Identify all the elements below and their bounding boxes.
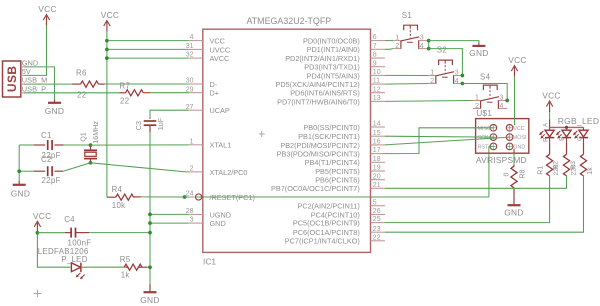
wire MOSI bbox=[385, 137, 510, 145]
svg-text:GND: GND bbox=[11, 189, 31, 199]
resistor R4 bbox=[107, 185, 141, 210]
svg-text:AVCC: AVCC bbox=[210, 54, 230, 63]
wire pin13 to S4 bbox=[385, 100, 473, 103]
wire S1 to S2 bbox=[429, 49, 463, 76]
svg-text:VCC: VCC bbox=[508, 55, 527, 65]
resistor R3 bbox=[580, 144, 593, 176]
wire reset riser to RST bbox=[488, 146, 490, 197]
svg-text:R6: R6 bbox=[76, 69, 87, 78]
svg-text:R3: R3 bbox=[570, 161, 577, 170]
label LEDFAB1206 bbox=[38, 247, 89, 256]
wire pin6 to S1 bbox=[385, 40, 393, 42]
svg-text:16MHz: 16MHz bbox=[91, 121, 100, 144]
svg-text:4: 4 bbox=[500, 103, 504, 110]
resistor R6 bbox=[72, 69, 105, 100]
connector U$1 AVRISPSMD bbox=[476, 119, 529, 165]
svg-text:GND: GND bbox=[210, 219, 226, 228]
svg-text:VCC: VCC bbox=[210, 37, 225, 46]
wire pin10 to S2 bbox=[385, 74, 428, 76]
svg-text:10: 10 bbox=[373, 69, 381, 76]
svg-text:UVCC: UVCC bbox=[210, 45, 231, 54]
wire R5 to GND rail bbox=[147, 266, 150, 268]
svg-text:R7: R7 bbox=[120, 81, 131, 90]
switch S1 bbox=[393, 11, 428, 50]
svg-text:RST: RST bbox=[478, 144, 489, 150]
svg-text:VCC: VCC bbox=[101, 10, 120, 20]
junction C4 gnd bbox=[148, 231, 152, 235]
svg-text:VCC: VCC bbox=[542, 91, 561, 101]
svg-text:24: 24 bbox=[186, 191, 194, 198]
wire VCC to C4/LED bbox=[37, 232, 70, 268]
junction UGND bbox=[148, 213, 152, 217]
wire XTAL2 sloped bbox=[91, 163, 189, 172]
svg-text:P_LED: P_LED bbox=[61, 255, 88, 264]
junction S2b bbox=[461, 82, 465, 86]
wire VCC to pin 31 bbox=[107, 48, 189, 50]
svg-text:S2: S2 bbox=[437, 46, 447, 55]
LED P_LED bbox=[61, 255, 88, 279]
wire VCC to pin 32 bbox=[107, 57, 189, 59]
svg-text:GND: GND bbox=[45, 106, 65, 116]
wire SCK bbox=[385, 135, 493, 138]
power symbol VCC (bottom) bbox=[33, 211, 52, 233]
junction VCC pin32 bbox=[105, 56, 109, 60]
svg-text:C3: C3 bbox=[134, 121, 143, 130]
svg-text:PC2(AIN2/PCIN11): PC2(AIN2/PCIN11) bbox=[297, 202, 359, 211]
svg-text:25: 25 bbox=[373, 216, 381, 223]
svg-text:R8: R8 bbox=[519, 169, 526, 178]
wire VCC to RGB anode bbox=[549, 112, 551, 120]
wire C2 to XTAL2 node bbox=[63, 163, 90, 171]
wire C1 to XTAL1 node bbox=[64, 144, 91, 146]
junction VCC pin31 bbox=[105, 48, 109, 52]
wire UCAP bbox=[150, 110, 189, 118]
capacitor C1 bbox=[19, 131, 63, 160]
svg-text:/RESET(PC1): /RESET(PC1) bbox=[210, 193, 255, 202]
wire R7 to pin 29 (D+) bbox=[150, 92, 189, 94]
svg-text:IC1: IC1 bbox=[203, 257, 216, 267]
svg-text:13: 13 bbox=[373, 95, 381, 102]
svg-text:USB_P: USB_P bbox=[22, 85, 46, 94]
wire VCC rail vertical bbox=[106, 32, 108, 198]
wire 5V to VCC bbox=[25, 26, 47, 76]
svg-text:S4: S4 bbox=[480, 72, 491, 81]
svg-text:22pF: 22pF bbox=[42, 176, 61, 185]
svg-text:4: 4 bbox=[455, 78, 459, 85]
power symbol VCC (ISP) bbox=[508, 55, 527, 77]
ground GND (USB) bbox=[45, 100, 65, 117]
svg-text:3: 3 bbox=[420, 35, 424, 42]
wire R3 to pin23 bbox=[385, 176, 584, 232]
resistor R7 bbox=[120, 81, 151, 105]
svg-text:R5: R5 bbox=[120, 255, 131, 264]
svg-text:C4: C4 bbox=[64, 215, 75, 224]
wire R1 to pin25 bbox=[385, 176, 550, 223]
svg-text:1uF: 1uF bbox=[156, 117, 165, 130]
svg-text:ATMEGA32U2-TQFP: ATMEGA32U2-TQFP bbox=[247, 16, 332, 26]
svg-text:Q1: Q1 bbox=[79, 132, 88, 142]
svg-text:GND: GND bbox=[140, 295, 160, 305]
junction S4a bbox=[505, 99, 509, 103]
LED B bbox=[556, 127, 571, 143]
svg-text:XTAL1: XTAL1 bbox=[210, 141, 232, 150]
wire RST bbox=[489, 145, 494, 147]
svg-text:14: 14 bbox=[373, 121, 381, 128]
svg-text:MISO: MISO bbox=[478, 126, 492, 132]
svg-text:UCAP: UCAP bbox=[210, 106, 230, 115]
wire R6 to pin 30 (D-) bbox=[105, 83, 189, 85]
svg-text:MOSI: MOSI bbox=[513, 135, 527, 141]
svg-text:USB: USB bbox=[5, 66, 19, 93]
svg-text:28: 28 bbox=[186, 208, 194, 215]
svg-text:6: 6 bbox=[373, 34, 377, 41]
svg-text:PD6(INT6/AIN5/RTS): PD6(INT6/AIN5/RTS) bbox=[290, 89, 360, 98]
svg-text:G: G bbox=[577, 136, 584, 141]
wire C1/C2 ground leg bbox=[18, 145, 20, 182]
svg-text:2: 2 bbox=[430, 78, 434, 85]
junction VCC pin4 bbox=[105, 39, 109, 43]
svg-text:26: 26 bbox=[373, 208, 381, 215]
label RGB_LED bbox=[558, 116, 599, 126]
wire pin7 to S1 bbox=[385, 48, 393, 51]
svg-text:PC7(ICP1/INT4/CLKO): PC7(ICP1/INT4/CLKO) bbox=[285, 237, 360, 246]
svg-text:PD1(INT1/AIN0): PD1(INT1/AIN0) bbox=[307, 45, 360, 54]
svg-text:PB0(SS/PCINT0): PB0(SS/PCINT0) bbox=[303, 123, 359, 132]
capacitor C4 bbox=[64, 215, 91, 248]
svg-text:PB4(T1/PCINT4): PB4(T1/PCINT4) bbox=[305, 158, 360, 167]
svg-text:9: 9 bbox=[373, 60, 377, 67]
svg-text:5: 5 bbox=[373, 199, 377, 206]
svg-text:10k: 10k bbox=[112, 201, 126, 210]
svg-text:2: 2 bbox=[190, 166, 194, 173]
svg-text:PC5(OC1B/PCINT9): PC5(OC1B/PCINT9) bbox=[293, 219, 360, 228]
RGB anode bus bbox=[543, 120, 584, 130]
svg-text:S1: S1 bbox=[402, 11, 412, 20]
resistor R2 bbox=[563, 144, 577, 176]
svg-text:GND: GND bbox=[469, 48, 489, 58]
svg-text:PD0(INT0/OC0B): PD0(INT0/OC0B) bbox=[303, 37, 360, 46]
svg-text:1: 1 bbox=[475, 95, 479, 102]
svg-text:UGND: UGND bbox=[210, 210, 232, 219]
junction S1b bbox=[427, 47, 431, 51]
svg-text:22: 22 bbox=[120, 96, 129, 105]
svg-text:4: 4 bbox=[190, 34, 194, 41]
junction R5 gnd bbox=[148, 265, 152, 269]
wire XTAL1 bbox=[91, 144, 189, 146]
wire S2 to S4 bbox=[462, 84, 507, 101]
svg-text:32: 32 bbox=[186, 52, 194, 59]
resistor R8 bbox=[504, 165, 527, 205]
switch S4 bbox=[473, 72, 508, 110]
svg-text:PB3(PDO/MISO/PCINT3): PB3(PDO/MISO/PCINT3) bbox=[277, 150, 360, 159]
svg-text:27: 27 bbox=[186, 104, 194, 111]
svg-text:8: 8 bbox=[373, 52, 377, 59]
junction S2a bbox=[461, 74, 465, 78]
svg-text:D-: D- bbox=[210, 80, 218, 89]
svg-text:22: 22 bbox=[373, 234, 381, 241]
svg-text:22: 22 bbox=[77, 91, 86, 100]
svg-text:XTAL2/PC0: XTAL2/PC0 bbox=[210, 168, 248, 177]
svg-text:1k: 1k bbox=[121, 271, 130, 280]
svg-text:B: B bbox=[559, 137, 566, 141]
power symbol VCC (RGB) bbox=[542, 91, 561, 113]
svg-text:23: 23 bbox=[373, 226, 381, 233]
svg-text:0: 0 bbox=[504, 173, 511, 177]
svg-text:C1: C1 bbox=[41, 131, 52, 140]
svg-text:7: 7 bbox=[373, 43, 377, 50]
svg-text:C2: C2 bbox=[41, 155, 52, 164]
wire GND rail vertical bbox=[149, 132, 151, 285]
junction S1a bbox=[427, 39, 431, 43]
svg-text:PD4(INT5/AIN3): PD4(INT5/AIN3) bbox=[307, 71, 360, 80]
wire VCC to U$1 bbox=[514, 77, 516, 126]
wire C4 to GND rail bbox=[89, 232, 150, 234]
svg-text:VCC: VCC bbox=[38, 4, 57, 14]
resistor R5 bbox=[120, 255, 148, 280]
crystal Q1 bbox=[79, 121, 100, 165]
wire S1 to GND bbox=[429, 41, 479, 44]
svg-text:AVRISPSMD: AVRISPSMD bbox=[476, 155, 527, 165]
svg-text:VCC: VCC bbox=[513, 126, 524, 132]
svg-text:18: 18 bbox=[373, 156, 381, 163]
svg-text:19: 19 bbox=[373, 165, 381, 172]
svg-text:1: 1 bbox=[395, 35, 399, 42]
LED G bbox=[573, 127, 588, 143]
svg-text:16: 16 bbox=[373, 139, 381, 146]
wire USB GND bbox=[25, 67, 55, 100]
svg-text:4: 4 bbox=[420, 43, 424, 50]
svg-text:1: 1 bbox=[430, 70, 434, 77]
svg-text:U$1: U$1 bbox=[476, 108, 492, 118]
junction GND pin3 bbox=[148, 221, 152, 225]
svg-text:RGB_LED: RGB_LED bbox=[558, 116, 599, 126]
wire UGND pin 28 bbox=[150, 213, 189, 215]
svg-text:5V: 5V bbox=[22, 67, 31, 76]
svg-text:PD2(INT2/AIN1/RXD1): PD2(INT2/AIN1/RXD1) bbox=[285, 54, 360, 63]
ground GND (S1) bbox=[469, 44, 489, 58]
svg-text:2: 2 bbox=[395, 43, 399, 50]
svg-text:PD7(INT7/HWB/AIN6/T0): PD7(INT7/HWB/AIN6/T0) bbox=[277, 97, 360, 106]
op IC1 ATMEGA32U2-TQFP bbox=[186, 16, 385, 267]
wire reset net across IC bbox=[185, 196, 489, 198]
ground GND (crystal) bbox=[11, 181, 31, 199]
ground GND (main rail) bbox=[140, 284, 160, 305]
svg-text:12: 12 bbox=[373, 86, 381, 93]
capacitor C3 bbox=[134, 117, 165, 132]
wire GND pin 3 bbox=[150, 222, 189, 224]
svg-text:17: 17 bbox=[373, 147, 381, 154]
svg-text:R2: R2 bbox=[553, 161, 560, 170]
capacitor C2 bbox=[19, 155, 63, 185]
power symbol VCC (USB) bbox=[38, 4, 57, 26]
svg-text:D+: D+ bbox=[210, 89, 220, 98]
svg-text:29: 29 bbox=[186, 86, 194, 93]
wire MISO bbox=[385, 128, 493, 154]
wire USB_M to R6 bbox=[25, 83, 73, 85]
wire pin11 to S2 bbox=[385, 83, 428, 86]
svg-text:1: 1 bbox=[190, 138, 194, 145]
svg-text:PD3(INT3/TXD1): PD3(INT3/TXD1) bbox=[304, 63, 360, 72]
origin cross bbox=[34, 290, 41, 297]
svg-text:PB7(OC0A/OC1C/PCINT7): PB7(OC0A/OC1C/PCINT7) bbox=[271, 184, 360, 193]
wire C4 left bbox=[37, 232, 64, 234]
wire R2 to pin21 bbox=[385, 176, 567, 188]
svg-text:30: 30 bbox=[186, 78, 194, 85]
svg-text:PB1(SCK/PCINT1): PB1(SCK/PCINT1) bbox=[298, 132, 360, 141]
svg-text:R1: R1 bbox=[538, 166, 545, 175]
svg-text:R4: R4 bbox=[112, 185, 123, 194]
wire LED to R5 bbox=[81, 266, 126, 268]
svg-text:1k: 1k bbox=[587, 167, 594, 175]
svg-text:VCC: VCC bbox=[33, 211, 52, 221]
wire VCC to pin 4 bbox=[107, 40, 189, 42]
USB connector X1 bbox=[3, 59, 48, 98]
svg-text:USB_M: USB_M bbox=[22, 76, 47, 85]
resistor R1 bbox=[538, 144, 561, 176]
svg-text:GND: GND bbox=[504, 207, 524, 217]
svg-text:3: 3 bbox=[500, 95, 504, 102]
wire USB_P to R7 bbox=[25, 92, 120, 94]
svg-text:20: 20 bbox=[373, 173, 381, 180]
junction C2 gnd bbox=[17, 169, 21, 173]
svg-text:PB2(PDI/MOSI/PCINT2): PB2(PDI/MOSI/PCINT2) bbox=[280, 141, 359, 150]
junction reset bbox=[183, 195, 187, 199]
svg-text:11: 11 bbox=[373, 78, 380, 85]
LED R bbox=[539, 127, 554, 143]
svg-text:21: 21 bbox=[373, 182, 381, 189]
junction C4 vcc bbox=[36, 231, 40, 235]
svg-text:3: 3 bbox=[190, 217, 194, 224]
svg-text:31: 31 bbox=[186, 43, 194, 50]
label U$1 bbox=[476, 108, 492, 118]
svg-text:R: R bbox=[543, 137, 550, 142]
svg-text:15: 15 bbox=[373, 130, 381, 137]
svg-text:PB5(PCINT5): PB5(PCINT5) bbox=[315, 167, 360, 176]
ground GND (R8) bbox=[504, 205, 524, 217]
wire R4 to /RESET bbox=[141, 196, 185, 198]
switch S2 bbox=[428, 46, 463, 85]
svg-text:GND: GND bbox=[513, 144, 525, 150]
svg-text:3: 3 bbox=[455, 70, 459, 77]
wire S1 common bbox=[428, 41, 430, 49]
power symbol VCC (main) bbox=[101, 10, 120, 32]
wire GND pad to R8 bbox=[513, 149, 515, 165]
